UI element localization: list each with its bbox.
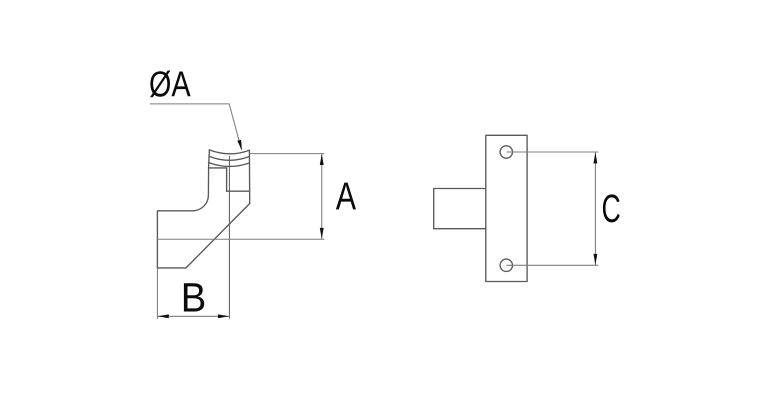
dimension C: dimension line	[594, 152, 596, 265]
dimension B: left extension line	[156, 268, 158, 319]
dimension C: bottom extension line	[507, 264, 599, 266]
dimension C: upper arrowhead	[593, 152, 597, 163]
dimension A: bottom extension line	[157, 238, 324, 240]
left view: socket rim arc 1	[209, 150, 249, 154]
left view: socket bore wall	[226, 168, 228, 191]
dimension A: top extension line	[250, 153, 325, 155]
left view: socket rim arc 3	[209, 163, 250, 167]
right view: bottom hole	[500, 259, 512, 271]
right view: mounting plate	[486, 135, 527, 281]
left view: socket bore bottom	[227, 190, 250, 192]
left view: right edge	[248, 150, 250, 203]
leader line for ØA	[150, 104, 242, 149]
dimension A: dimension line	[321, 154, 323, 240]
dimension B: right arrowhead	[218, 314, 229, 318]
left view: body outline	[157, 150, 209, 268]
dimension A: upper arrowhead	[320, 154, 324, 165]
dimension B: dimension line	[157, 315, 229, 317]
label A	[336, 183, 356, 210]
left view: socket rim arc 2	[209, 156, 250, 160]
right view: side stub	[434, 189, 486, 229]
left view: bottom edge	[157, 267, 186, 269]
label ØA	[150, 71, 191, 98]
dimension A: lower arrowhead	[320, 228, 324, 239]
left view: chamfer diagonal	[186, 204, 250, 268]
left view: vertical axis line	[228, 156, 230, 319]
label C	[603, 194, 620, 222]
dimension B: left arrowhead	[158, 314, 169, 318]
left view: socket shoulder step	[209, 167, 227, 169]
label B	[184, 283, 204, 311]
leader ØA arrowhead	[237, 140, 242, 151]
dimension C: lower arrowhead	[593, 254, 597, 265]
right view: top hole	[500, 146, 512, 158]
dimension C: top extension line	[507, 151, 599, 153]
